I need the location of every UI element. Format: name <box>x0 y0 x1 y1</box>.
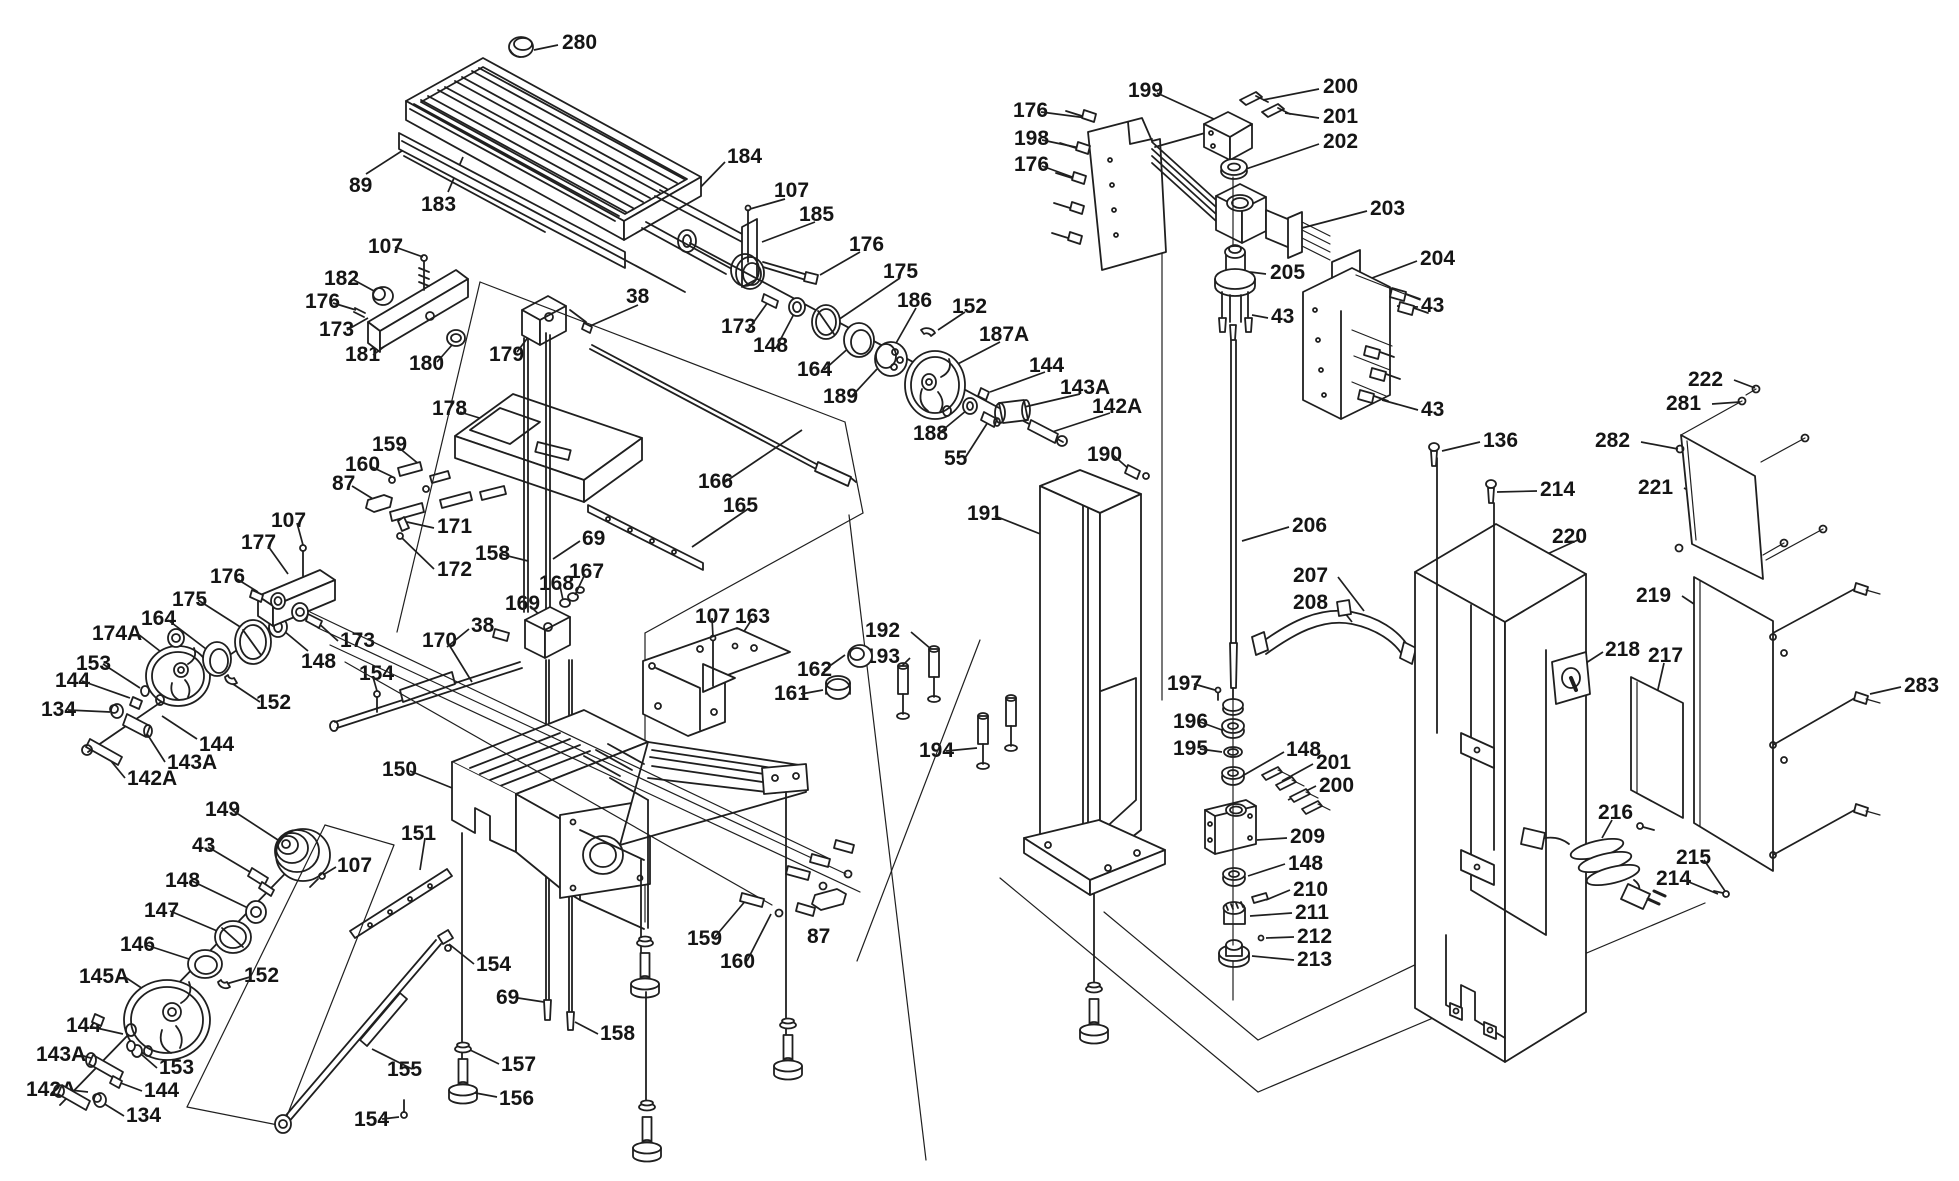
svg-text:213: 213 <box>1297 948 1332 971</box>
svg-text:184: 184 <box>727 145 762 168</box>
svg-text:148: 148 <box>301 650 336 673</box>
svg-text:219: 219 <box>1636 584 1671 607</box>
svg-text:196: 196 <box>1173 710 1208 733</box>
svg-text:176: 176 <box>849 233 884 256</box>
svg-text:150: 150 <box>382 758 417 781</box>
svg-text:217: 217 <box>1648 644 1683 667</box>
svg-text:222: 222 <box>1688 368 1723 391</box>
svg-text:176: 176 <box>1013 99 1048 122</box>
svg-text:174A: 174A <box>92 622 142 645</box>
svg-text:164: 164 <box>797 358 832 381</box>
svg-text:175: 175 <box>172 588 207 611</box>
svg-text:185: 185 <box>799 203 834 226</box>
svg-text:197: 197 <box>1167 672 1202 695</box>
svg-text:211: 211 <box>1295 901 1329 924</box>
svg-text:87: 87 <box>332 472 355 495</box>
svg-text:186: 186 <box>897 289 932 312</box>
svg-text:87: 87 <box>807 925 830 948</box>
svg-text:191: 191 <box>967 502 1002 525</box>
svg-text:69: 69 <box>496 986 519 1009</box>
svg-text:215: 215 <box>1676 846 1711 869</box>
svg-text:38: 38 <box>471 614 495 637</box>
svg-text:187A: 187A <box>979 323 1029 346</box>
svg-text:190: 190 <box>1087 443 1122 466</box>
svg-text:107: 107 <box>271 509 306 532</box>
svg-text:43: 43 <box>1421 398 1444 421</box>
svg-text:156: 156 <box>499 1087 534 1110</box>
svg-text:188: 188 <box>913 422 948 445</box>
svg-text:280: 280 <box>562 31 597 54</box>
svg-text:145A: 145A <box>79 965 129 988</box>
svg-text:146: 146 <box>120 933 155 956</box>
svg-text:201: 201 <box>1316 751 1351 774</box>
svg-text:200: 200 <box>1319 774 1354 797</box>
svg-text:158: 158 <box>475 542 510 565</box>
svg-text:171: 171 <box>437 515 472 538</box>
svg-text:192: 192 <box>865 619 900 642</box>
svg-text:210: 210 <box>1293 878 1328 901</box>
svg-text:189: 189 <box>823 385 858 408</box>
svg-text:152: 152 <box>256 691 291 714</box>
svg-text:166: 166 <box>698 470 733 493</box>
svg-text:212: 212 <box>1297 925 1332 948</box>
svg-text:152: 152 <box>952 295 987 318</box>
svg-text:198: 198 <box>1014 127 1049 150</box>
svg-text:142A: 142A <box>127 767 177 790</box>
svg-text:176: 176 <box>1014 153 1049 176</box>
svg-text:205: 205 <box>1270 261 1305 284</box>
svg-text:55: 55 <box>944 447 968 470</box>
svg-text:208: 208 <box>1293 591 1328 614</box>
svg-text:204: 204 <box>1420 247 1455 270</box>
svg-text:207: 207 <box>1293 564 1328 587</box>
svg-text:144: 144 <box>55 669 90 692</box>
svg-text:203: 203 <box>1370 197 1405 220</box>
svg-text:43: 43 <box>1421 294 1444 317</box>
svg-text:214: 214 <box>1540 478 1575 501</box>
svg-text:142A: 142A <box>1092 395 1142 418</box>
svg-text:69: 69 <box>582 527 605 550</box>
svg-text:152: 152 <box>244 964 279 987</box>
svg-text:176: 176 <box>305 290 340 313</box>
svg-text:163: 163 <box>735 605 770 628</box>
svg-text:134: 134 <box>126 1104 161 1127</box>
svg-text:200: 200 <box>1323 75 1358 98</box>
svg-text:148: 148 <box>753 334 788 357</box>
svg-text:221: 221 <box>1638 476 1673 499</box>
svg-text:148: 148 <box>1288 852 1323 875</box>
svg-text:179: 179 <box>489 343 524 366</box>
svg-text:157: 157 <box>501 1053 536 1076</box>
svg-text:155: 155 <box>387 1058 422 1081</box>
svg-text:43: 43 <box>1271 305 1294 328</box>
svg-text:175: 175 <box>883 260 918 283</box>
svg-text:283: 283 <box>1904 674 1939 697</box>
svg-text:159: 159 <box>687 927 722 950</box>
svg-text:180: 180 <box>409 352 444 375</box>
svg-text:183: 183 <box>421 193 456 216</box>
svg-text:202: 202 <box>1323 130 1358 153</box>
svg-text:136: 136 <box>1483 429 1518 452</box>
svg-text:151: 151 <box>401 822 436 845</box>
svg-text:201: 201 <box>1323 105 1358 128</box>
svg-text:199: 199 <box>1128 79 1163 102</box>
svg-text:195: 195 <box>1173 737 1208 760</box>
svg-text:214: 214 <box>1656 867 1691 890</box>
svg-text:282: 282 <box>1595 429 1630 452</box>
svg-text:176: 176 <box>210 565 245 588</box>
svg-text:144: 144 <box>144 1079 179 1102</box>
svg-text:107: 107 <box>337 854 372 877</box>
svg-text:147: 147 <box>144 899 179 922</box>
svg-text:209: 209 <box>1290 825 1325 848</box>
svg-text:168: 168 <box>539 572 574 595</box>
svg-text:162: 162 <box>797 658 832 681</box>
svg-text:43: 43 <box>192 834 215 857</box>
svg-text:216: 216 <box>1598 801 1633 824</box>
svg-text:107: 107 <box>774 179 809 202</box>
svg-text:206: 206 <box>1292 514 1327 537</box>
svg-text:149: 149 <box>205 798 240 821</box>
svg-text:167: 167 <box>569 560 604 583</box>
svg-text:148: 148 <box>165 869 200 892</box>
svg-text:143A: 143A <box>36 1043 86 1066</box>
svg-text:164: 164 <box>141 607 176 630</box>
svg-text:144: 144 <box>1029 354 1064 377</box>
svg-text:218: 218 <box>1605 638 1640 661</box>
svg-text:182: 182 <box>324 267 359 290</box>
svg-text:154: 154 <box>476 953 511 976</box>
svg-text:172: 172 <box>437 558 472 581</box>
svg-text:160: 160 <box>720 950 755 973</box>
svg-text:158: 158 <box>600 1022 635 1045</box>
svg-text:107: 107 <box>368 235 403 258</box>
svg-text:38: 38 <box>626 285 650 308</box>
svg-text:89: 89 <box>349 174 372 197</box>
svg-text:281: 281 <box>1666 392 1701 415</box>
